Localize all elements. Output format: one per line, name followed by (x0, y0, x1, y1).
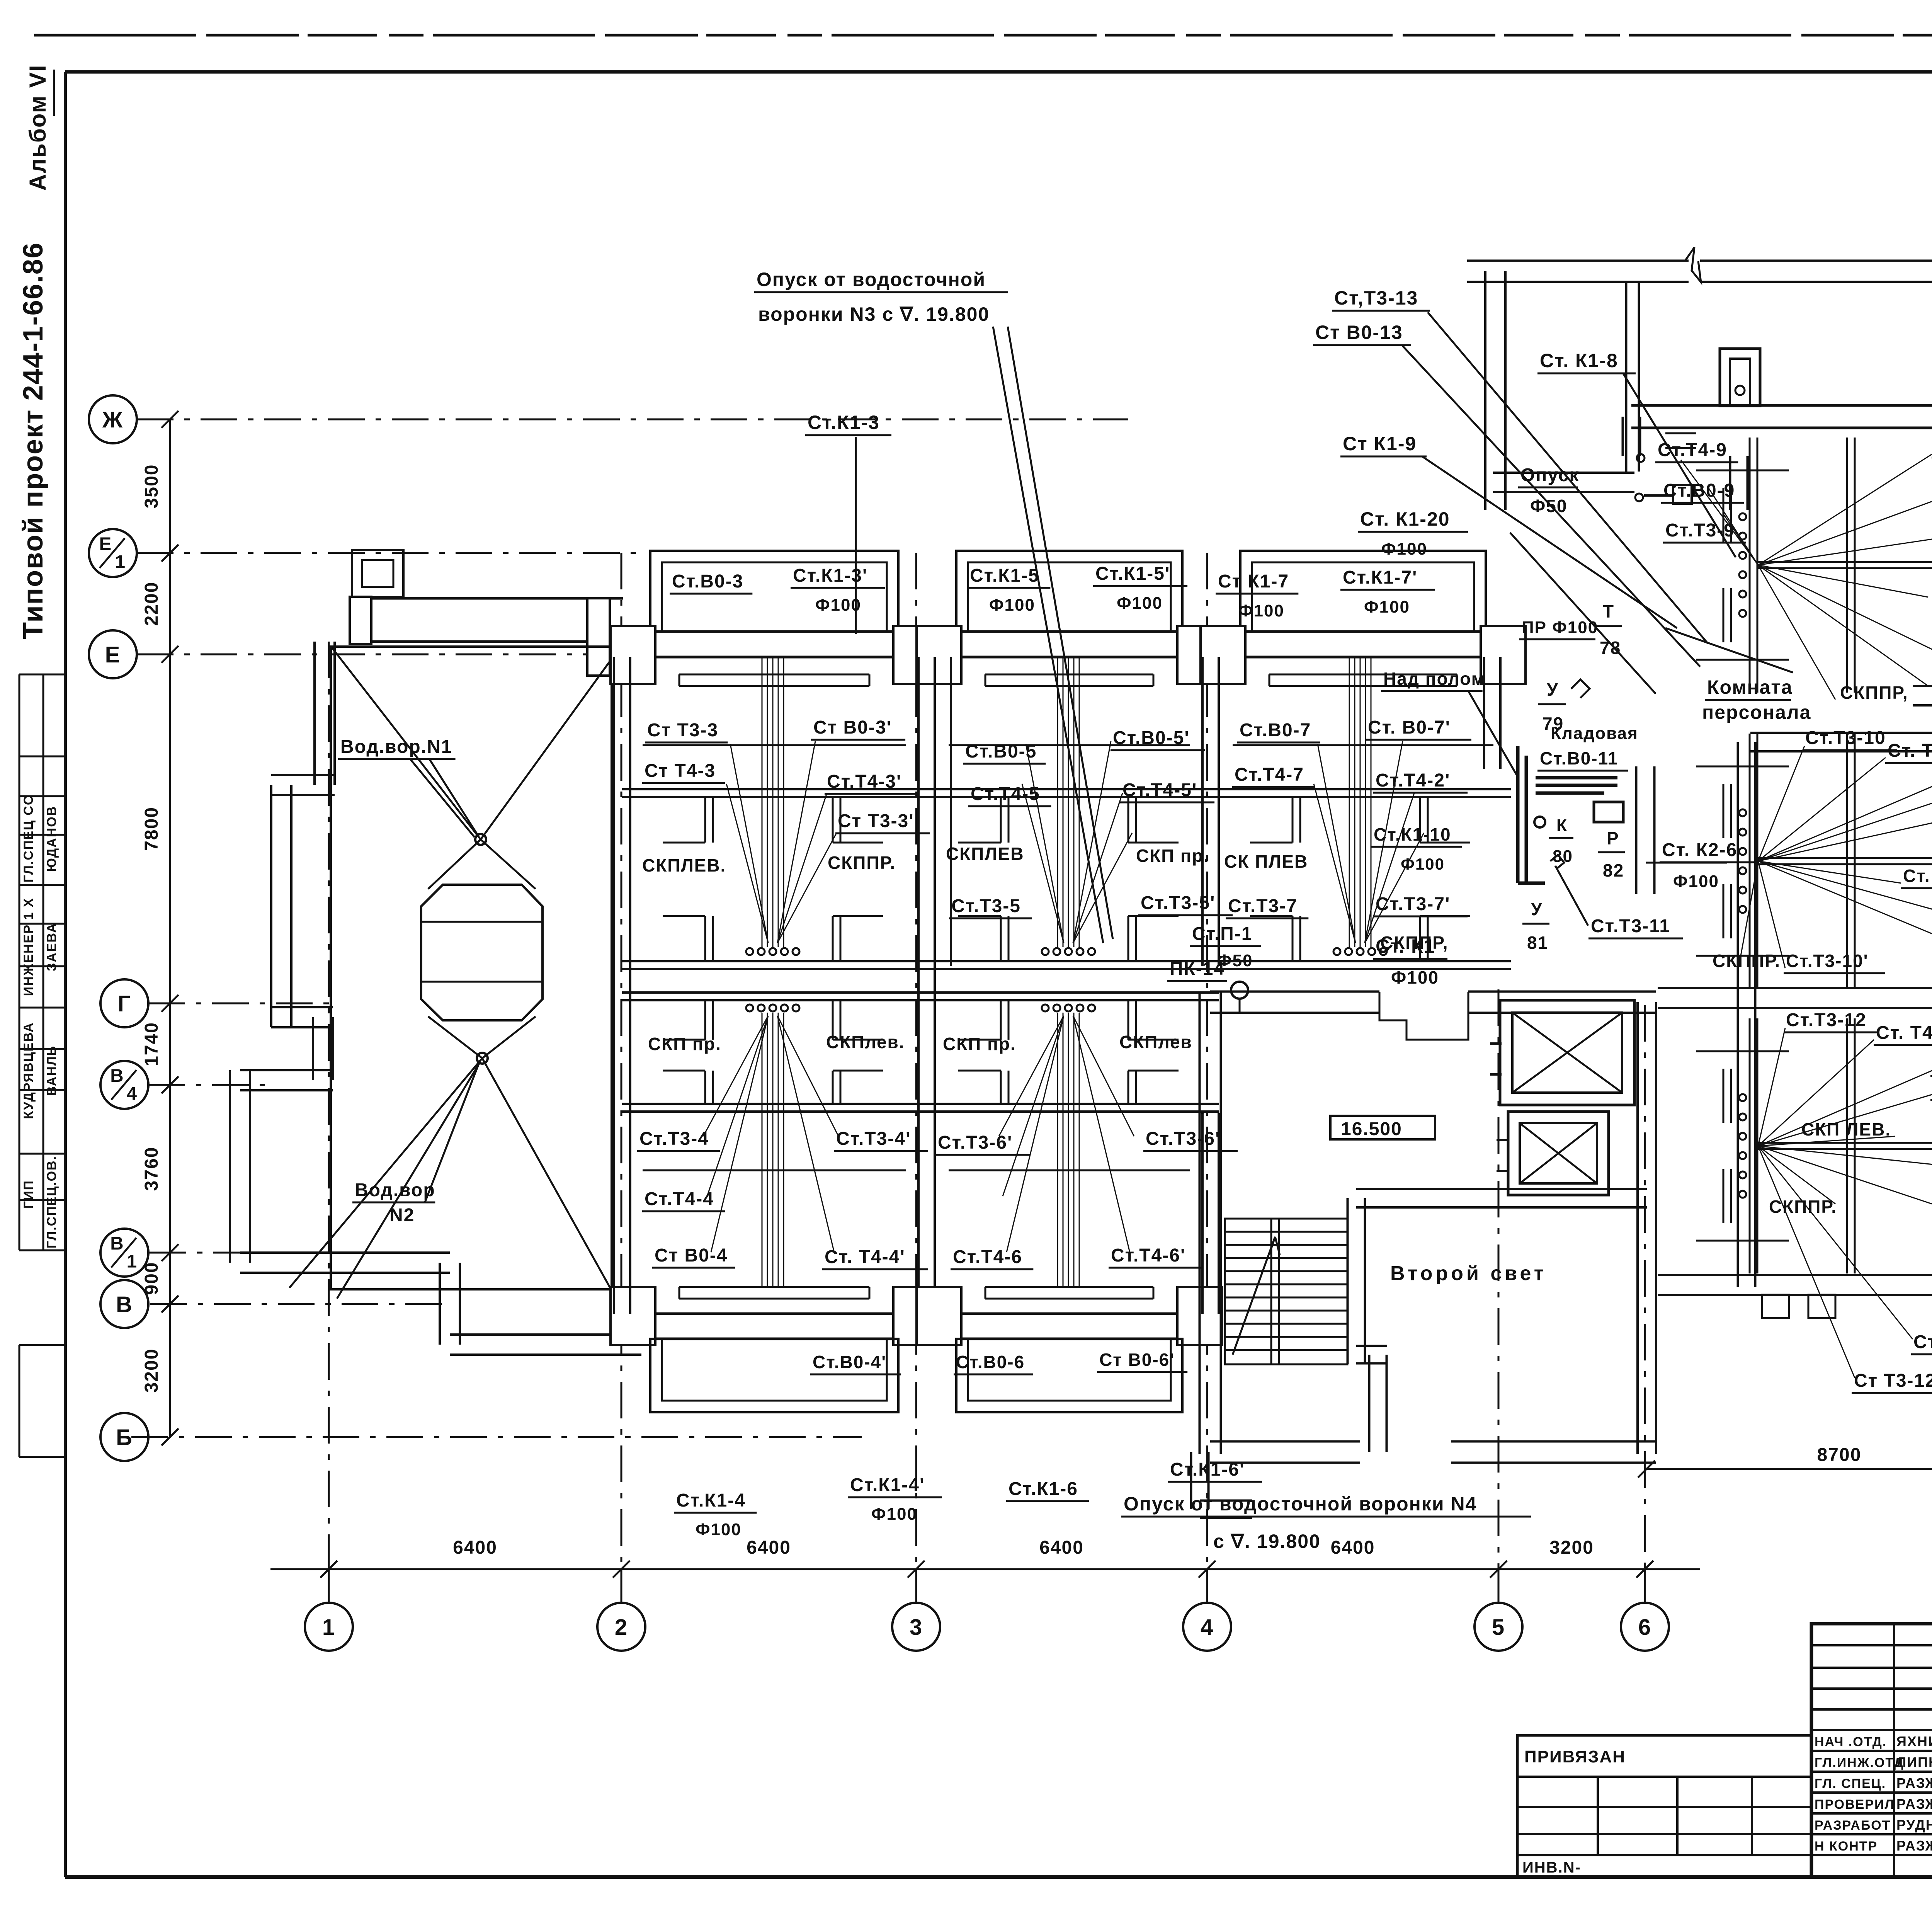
inter-module partition walls lower band (613, 1113, 615, 1314)
wall pilaster (611, 1287, 655, 1345)
wing room partitions (1749, 438, 1751, 693)
wall pilaster (1177, 626, 1222, 684)
svg-text:Ст.К1-4: Ст.К1-4 (676, 1490, 746, 1511)
pipe chase under wall (1269, 674, 1457, 676)
sanitary cabin upper rail (918, 788, 1219, 790)
svg-text:Ст.П-1: Ст.П-1 (1192, 924, 1252, 944)
svg-text:воронки N3 с ∇. 19.800: воронки N3 с ∇. 19.800 (758, 303, 990, 325)
room pipe line (643, 744, 906, 746)
svg-text:Н КОНТР: Н КОНТР (1815, 1839, 1878, 1854)
stub brackets (1730, 784, 1732, 838)
svg-text:Ф100: Ф100 (1401, 855, 1445, 873)
stair arrow (1233, 1237, 1275, 1355)
svg-text:Ст.Т4-7: Ст.Т4-7 (1235, 764, 1304, 785)
lower band exterior wall (612, 1313, 937, 1315)
svg-text:У: У (1531, 899, 1543, 919)
svg-text:ЛИПКИНД: ЛИПКИНД (1896, 1754, 1932, 1770)
svg-text:7800: 7800 (141, 807, 162, 851)
roof funnel upper X diagonals (332, 648, 481, 839)
lower loggia outline (650, 1339, 898, 1412)
module3 upper leader fan (1318, 744, 1355, 943)
axis Ж circle (89, 395, 137, 443)
elevation mark 16.500 (1330, 1116, 1435, 1139)
pipe chase above wall (679, 1286, 869, 1288)
cabin stub upper (1000, 1000, 1002, 1040)
stair flight (1225, 1219, 1347, 1364)
svg-text:Ст.Т3-12: Ст.Т3-12 (1786, 1010, 1867, 1030)
wing bottom wall (1735, 1294, 1932, 1296)
svg-text:Ст. К1-11': Ст. К1-11' (1903, 866, 1932, 886)
cabin stub upper (1419, 797, 1421, 843)
dim 8700 line right wing (1646, 1468, 1932, 1470)
svg-text:Ст В0-13: Ст В0-13 (1315, 322, 1403, 343)
svg-text:К: К (1556, 816, 1568, 835)
wall pilaster (893, 1287, 938, 1345)
title block outer border (1811, 1624, 1932, 1877)
stub brackets (1730, 488, 1732, 542)
svg-text:Ст В0-3': Ст В0-3' (813, 717, 892, 738)
svg-text:82: 82 (1603, 860, 1624, 880)
svg-text:ЯХНИС: ЯХНИС (1896, 1733, 1932, 1749)
wing room2 fan leaders (1758, 746, 1804, 861)
svg-text:Ст.Т4-3': Ст.Т4-3' (827, 771, 901, 792)
svg-text:Е: Е (105, 642, 121, 667)
wall pilaster (1481, 626, 1526, 684)
pipe chase under wall (985, 674, 1153, 676)
svg-text:3760: 3760 (141, 1147, 162, 1191)
sanitary cabin lower rail (622, 960, 923, 962)
machine room hexagon (421, 885, 543, 1020)
svg-text:Ст.Т4-4: Ст.Т4-4 (645, 1189, 714, 1209)
roof drain point 2 (477, 1053, 488, 1064)
sanitary cabin lower rail (1209, 960, 1511, 962)
elevator shaft 2 (1508, 1112, 1609, 1195)
lobby wall above light well (1356, 1206, 1647, 1209)
lower band exterior wall (918, 1313, 1221, 1315)
svg-text:1: 1 (127, 1251, 138, 1272)
wing room partitions (1749, 1018, 1751, 1273)
svg-text:СКП ЛЕВ.: СКП ЛЕВ. (1801, 1119, 1891, 1139)
west exterior wall stepped outline (313, 642, 316, 785)
svg-text:6400: 6400 (747, 1537, 791, 1558)
loggia outline (956, 551, 1182, 632)
svg-text:Типовой проект 244-1-66.86: Типовой проект 244-1-66.86 (18, 242, 49, 639)
upper hall top wall with break (1467, 281, 1689, 283)
pipe chase above wall (985, 1286, 1153, 1288)
axis 5 circle (1475, 1603, 1522, 1651)
wing room pipe run (1758, 561, 1932, 563)
svg-text:Р: Р (1607, 828, 1619, 848)
svg-text:Ст.К1-3: Ст.К1-3 (808, 412, 880, 433)
svg-text:3200: 3200 (141, 1348, 162, 1393)
svg-text:Кладовая: Кладовая (1551, 724, 1638, 743)
svg-text:Ст.К1-10: Ст.К1-10 (1374, 824, 1451, 844)
axis 6 circle (1621, 1603, 1669, 1651)
band exterior wall (612, 630, 937, 633)
wall pilaster (611, 626, 655, 684)
west top junction wall horizontal (350, 597, 623, 600)
svg-text:Ст.В0-9: Ст.В0-9 (1663, 480, 1735, 501)
svg-text:Ст.В0-7: Ст.В0-7 (1240, 720, 1311, 741)
wing corridor wall below room1 (1750, 750, 1932, 752)
svg-text:Ст. Т4-11: Ст. Т4-11 (1913, 1332, 1932, 1352)
wall pilaster (893, 626, 938, 684)
svg-text:Ст В0-4: Ст В0-4 (655, 1245, 728, 1266)
axis 4 circle (1183, 1603, 1231, 1651)
hall east wall upper (1729, 456, 1731, 510)
recess at stair top (1379, 992, 1468, 1040)
module2 upper leader fan (1026, 744, 1064, 943)
svg-text:ЗАЕВА: ЗАЕВА (44, 923, 59, 971)
svg-text:Ст Т3-3: Ст Т3-3 (647, 720, 718, 741)
svg-text:Ст.Т3-4: Ст.Т3-4 (639, 1129, 709, 1149)
bottom axis dash-dot verticals (328, 642, 330, 1602)
svg-text:Ст Т4-3: Ст Т4-3 (645, 761, 716, 781)
svg-text:ГЛ.ИНЖ.ОТД: ГЛ.ИНЖ.ОТД (1815, 1755, 1904, 1770)
svg-text:РАЗЖИВИНА: РАЗЖИВИНА (1896, 1775, 1932, 1791)
cabin stub lower (1128, 916, 1129, 961)
svg-text:ПРОВЕРИЛ: ПРОВЕРИЛ (1815, 1797, 1895, 1812)
sanitary cabin upper rail (622, 991, 923, 994)
svg-text:Б: Б (116, 1425, 133, 1450)
svg-text:В: В (110, 1066, 124, 1086)
svg-text:Ст. К2-6: Ст. К2-6 (1662, 840, 1737, 860)
svg-text:СКПлев: СКПлев (1119, 1032, 1192, 1052)
svg-text:Ст.Т3-5: Ст.Т3-5 (951, 896, 1021, 916)
hall inner wall vertical (1625, 282, 1628, 472)
svg-text:3200: 3200 (1549, 1537, 1594, 1558)
svg-text:Ст.В0-6: Ст.В0-6 (956, 1352, 1025, 1372)
riser dots (1739, 513, 1746, 520)
roof block outline (331, 647, 612, 1289)
svg-text:Ст.В0-5: Ст.В0-5 (965, 741, 1037, 762)
svg-text:78: 78 (1600, 638, 1621, 658)
cabin stub upper (1128, 1000, 1129, 1040)
top dashed trim line (34, 34, 1932, 37)
svg-text:Опуск от водосточной: Опуск от водосточной (757, 269, 986, 290)
svg-text:Ст.Т3-7': Ст.Т3-7' (1376, 894, 1450, 914)
svg-text:3: 3 (910, 1615, 923, 1640)
axis Е/1 dash-dot line (137, 552, 645, 554)
band exterior wall (918, 630, 1221, 633)
svg-text:Альбом VI: Альбом VI (25, 65, 51, 191)
svg-text:ИНЖЕНЕР 1 Х: ИНЖЕНЕР 1 Х (21, 898, 36, 996)
svg-text:4: 4 (1201, 1615, 1214, 1640)
sanitary cabin lower rail (918, 960, 1219, 962)
svg-text:Ст.Т4-6': Ст.Т4-6' (1111, 1245, 1185, 1266)
cabin stub upper (704, 1000, 706, 1040)
svg-text:КУДРЯВЦЕВА: КУДРЯВЦЕВА (21, 1022, 36, 1119)
svg-text:Опуск от водосточной воронк: Опуск от водосточной воронки N4 (1124, 1493, 1477, 1515)
room pipe line (949, 744, 1190, 746)
axis Ж dash-dot line (137, 419, 1128, 421)
title block small grid rows (1811, 1644, 1932, 1646)
svg-text:Ст.В0-4': Ст.В0-4' (813, 1352, 886, 1372)
cabin stub lower (704, 916, 706, 961)
svg-text:Ст.Т3-10': Ст.Т3-10' (1786, 951, 1869, 971)
svg-text:Над полом: Над полом (1383, 669, 1485, 689)
privyazan table (1517, 1735, 1811, 1877)
module1 upper leader fan (730, 744, 768, 943)
svg-text:1: 1 (322, 1615, 335, 1640)
svg-text:Ст.К1-7': Ст.К1-7' (1343, 567, 1417, 588)
svg-text:В: В (110, 1233, 124, 1254)
svg-text:Ст.В0-3: Ст.В0-3 (672, 571, 743, 592)
svg-text:ПР Ф100: ПР Ф100 (1522, 618, 1598, 637)
svg-text:СКПЛЕВ: СКПЛЕВ (946, 844, 1024, 864)
wing room pipe run (1758, 1142, 1932, 1144)
wing top-left connector walls (1622, 417, 1624, 456)
svg-text:СКПлев.: СКПлев. (826, 1032, 905, 1052)
svg-text:Ст. Т4-11: Ст. Т4-11 (1876, 1023, 1932, 1043)
west top wall end pilaster (350, 597, 371, 644)
axis Г dash-dot line (148, 1003, 333, 1004)
room pipe line (643, 1170, 906, 1171)
room pipe line (1233, 744, 1493, 746)
axis Б circle (100, 1413, 148, 1461)
svg-text:Ст.Т3-6': Ст.Т3-6' (938, 1132, 1012, 1153)
roof drain point 1 (475, 834, 486, 845)
cabin stub upper (832, 797, 834, 843)
svg-text:2200: 2200 (141, 582, 162, 626)
svg-text:Ф100: Ф100 (1364, 598, 1410, 616)
svg-text:СКППР,: СКППР, (1840, 683, 1908, 703)
svg-text:Ст.Т4-5: Ст.Т4-5 (971, 784, 1040, 804)
axis В/1 circle (100, 1229, 148, 1277)
svg-text:Ф100: Ф100 (871, 1505, 917, 1524)
svg-text:Ст.Т3-7: Ст.Т3-7 (1228, 896, 1298, 916)
svg-text:Ст.Т3-4': Ст.Т3-4' (836, 1129, 911, 1149)
loggia outline (650, 551, 898, 632)
svg-text:ЮДАНОВ: ЮДАНОВ (44, 806, 59, 872)
wing room1 bottom wall (1913, 704, 1932, 707)
svg-text:СКППР.: СКППР. (828, 853, 896, 873)
svg-text:В: В (116, 1292, 133, 1317)
svg-text:СКП пр.: СКП пр. (943, 1034, 1016, 1054)
svg-text:Ф100: Ф100 (1391, 967, 1439, 987)
cabin stub lower (832, 1071, 834, 1104)
svg-text:Ст.Т4-5': Ст.Т4-5' (1122, 780, 1197, 800)
axis Е/1 circle (89, 529, 137, 577)
svg-text:Ст.Т4-9: Ст.Т4-9 (1658, 440, 1727, 460)
roof funnel lower X diagonals (428, 1016, 482, 1058)
wall pilaster (1177, 1287, 1222, 1345)
left signature table (19, 674, 20, 1250)
svg-text:Ст.К1-5': Ст.К1-5' (1095, 564, 1170, 584)
svg-text:6: 6 (1638, 1615, 1651, 1640)
svg-text:Ст.К1-6: Ст.К1-6 (1009, 1479, 1078, 1499)
pipe chase under wall (679, 674, 869, 676)
riser dots (1739, 809, 1746, 816)
hall bottom wall (1493, 491, 1634, 493)
svg-text:РУДНИЦКАЯ: РУДНИЦКАЯ (1896, 1817, 1932, 1833)
stub brackets (1730, 1069, 1732, 1123)
svg-text:РАЗРАБОТ: РАЗРАБОТ (1815, 1818, 1891, 1833)
riser pipe cluster (1057, 1013, 1058, 1287)
svg-text:Ф100: Ф100 (1117, 594, 1163, 613)
corridor west wall (613, 657, 615, 1314)
svg-text:ГЛ.СПЕЦ СС: ГЛ.СПЕЦ СС (21, 795, 36, 883)
svg-text:ВАНЛЬ: ВАНЛЬ (44, 1045, 59, 1096)
svg-text:ПРИВЯЗАН: ПРИВЯЗАН (1524, 1747, 1626, 1766)
label К/80 with fixture (1534, 817, 1545, 827)
svg-text:с ∇. 19.800: с ∇. 19.800 (1213, 1531, 1321, 1552)
wing room partitions (1749, 734, 1751, 989)
svg-text:5: 5 (1492, 1615, 1505, 1640)
axis 3 circle (892, 1603, 940, 1651)
riser pipe cluster (762, 1013, 763, 1287)
loggia outline (1240, 551, 1486, 632)
elevator shaft 1 (1500, 1000, 1634, 1105)
cabin stub lower (1000, 1071, 1002, 1104)
axis 2 circle (597, 1603, 645, 1651)
svg-text:Ст.Т3-9: Ст.Т3-9 (1665, 520, 1735, 541)
title block small grid verticals (1893, 1624, 1895, 1877)
axis В/4 dash-dot line (148, 1084, 272, 1086)
svg-text:ГЛ. СПЕЦ.: ГЛ. СПЕЦ. (1815, 1776, 1886, 1791)
svg-text:Ст.К1-5: Ст.К1-5 (970, 565, 1039, 586)
axis В/1 dash-dot line (150, 1252, 402, 1254)
cabin stub upper (1000, 797, 1002, 843)
svg-text:Ст. К1-8: Ст. К1-8 (1540, 350, 1618, 371)
svg-text:Вод.вор.N1: Вод.вор.N1 (340, 737, 452, 757)
svg-text:N2: N2 (389, 1205, 415, 1226)
svg-text:Ст К1-7: Ст К1-7 (1218, 571, 1289, 592)
room pipe line (949, 1170, 1190, 1171)
wing left wall (1737, 742, 1739, 1287)
svg-text:ИНВ.N-: ИНВ.N- (1522, 1859, 1581, 1876)
axis Е dash-dot line (137, 654, 614, 655)
svg-text:СКПЛЕВ.: СКПЛЕВ. (642, 855, 726, 875)
cabin stub upper (832, 1000, 834, 1040)
svg-text:Комната: Комната (1707, 676, 1793, 698)
svg-text:Ф50: Ф50 (1530, 496, 1567, 516)
svg-text:Ст. К1: Ст. К1 (1376, 935, 1435, 957)
wing room1 fan leaders (1681, 460, 1758, 565)
svg-text:900: 900 (141, 1262, 162, 1295)
svg-text:СКППР.: СКППР. (1713, 951, 1781, 971)
wing appendix box СтК1-8 (1720, 349, 1760, 406)
svg-text:Ф100: Ф100 (989, 596, 1035, 615)
cabin stub upper (1292, 797, 1294, 843)
svg-text:СК ПЛЕВ: СК ПЛЕВ (1224, 851, 1308, 872)
wing room pipe run (1758, 857, 1932, 859)
svg-text:Ст. К1-20: Ст. К1-20 (1360, 508, 1450, 530)
svg-text:Ст К1-9: Ст К1-9 (1343, 433, 1417, 455)
riser dots (1739, 1094, 1746, 1101)
wall between stair and light well (1347, 1198, 1349, 1364)
axis Б dash-dot line (131, 1436, 862, 1438)
module1 lower leader fan (703, 1016, 768, 1136)
svg-text:Ст.В0-5': Ст.В0-5' (1113, 728, 1190, 748)
axis В dash-dot line (150, 1303, 450, 1305)
svg-text:Ф100: Ф100 (815, 596, 861, 615)
hall drop fixtures (1637, 454, 1645, 462)
bottom dimension line (270, 1568, 1700, 1570)
lower loggia outline (956, 1339, 1182, 1412)
svg-text:Ст,Т3-13: Ст,Т3-13 (1334, 287, 1418, 309)
svg-text:РАЗЖИВИНА: РАЗЖИВИНА (1896, 1838, 1932, 1854)
hall west wall vertical (1484, 271, 1486, 510)
svg-text:6400: 6400 (1331, 1537, 1375, 1558)
svg-text:1740: 1740 (141, 1022, 162, 1066)
svg-text:16.500: 16.500 (1341, 1119, 1402, 1139)
hall east wall (1635, 766, 1638, 894)
svg-text:8700: 8700 (1817, 1445, 1862, 1465)
wall pilaster (917, 1287, 961, 1345)
svg-text:1: 1 (115, 552, 126, 572)
axis В circle (100, 1280, 148, 1328)
cabin stub upper (1128, 797, 1129, 843)
svg-text:Ф100: Ф100 (696, 1520, 742, 1539)
west small balcony box above wall (352, 550, 403, 597)
svg-text:НАЧ .ОТД.: НАЧ .ОТД. (1815, 1735, 1887, 1749)
inter-module partition walls upper band (613, 657, 615, 966)
cabin stub lower (1292, 916, 1294, 961)
axis В/4 circle (100, 1061, 148, 1109)
svg-text:Ст В0-6': Ст В0-6' (1099, 1350, 1175, 1370)
svg-text:6400: 6400 (453, 1537, 497, 1558)
svg-text:Ст.В0-11: Ст.В0-11 (1540, 748, 1618, 768)
drawing frame (65, 70, 1932, 74)
svg-text:Ст.Т4-2': Ст.Т4-2' (1376, 770, 1450, 791)
stair block south annexe walls (1190, 1452, 1192, 1509)
axis Г circle (100, 979, 148, 1027)
svg-text:Т: Т (1603, 601, 1614, 621)
svg-text:СКП пр.: СКП пр. (1136, 846, 1209, 866)
svg-text:Вод.вор: Вод.вор (355, 1180, 435, 1200)
wall pilaster (917, 626, 961, 684)
svg-text:Ст. Т4-10: Ст. Т4-10 (1888, 741, 1932, 761)
svg-text:Ст.К1-3': Ст.К1-3' (793, 565, 867, 586)
svg-text:Ж: Ж (102, 407, 123, 432)
svg-text:РАЗЖИВИНА: РАЗЖИВИНА (1896, 1796, 1932, 1812)
svg-text:Ф100: Ф100 (1673, 872, 1719, 891)
svg-text:Второй свет: Второй свет (1390, 1262, 1547, 1285)
leader from drain text N3 to module 2 (1008, 327, 1113, 939)
wing room2 bottom wall (1658, 1007, 1932, 1009)
svg-text:2: 2 (615, 1615, 628, 1640)
svg-text:Ф50: Ф50 (1217, 951, 1253, 970)
wall pilaster (1201, 626, 1245, 684)
svg-text:3500: 3500 (141, 464, 162, 509)
svg-text:СКП пр.: СКП пр. (648, 1034, 721, 1054)
wing top wall (1631, 427, 1932, 429)
cabin stub upper (704, 797, 706, 843)
sanitary cabin lower rail (622, 1103, 923, 1105)
cabin stub lower (1000, 916, 1002, 961)
svg-text:Ст.К1-4': Ст.К1-4' (850, 1475, 925, 1495)
svg-text:Ст Т3-12: Ст Т3-12 (1854, 1371, 1932, 1391)
svg-text:4: 4 (127, 1083, 138, 1104)
wing room3 fan leaders (1758, 1028, 1785, 1146)
sanitary cabin lower rail (918, 1103, 1219, 1105)
svg-text:Ст.Т3-11: Ст.Т3-11 (1591, 916, 1670, 936)
svg-text:6400: 6400 (1039, 1537, 1084, 1558)
axis 1 circle (305, 1603, 353, 1651)
cabin stub lower (704, 1071, 706, 1104)
svg-text:У: У (1547, 679, 1559, 700)
svg-text:персонала: персонала (1702, 701, 1811, 723)
cabin stub lower (832, 916, 834, 961)
riser pipe cluster (1349, 657, 1350, 947)
svg-text:Г: Г (118, 991, 131, 1016)
svg-text:Ф100: Ф100 (1238, 601, 1284, 620)
svg-text:ГИП: ГИП (21, 1180, 36, 1209)
svg-text:Ст.Т3-6': Ст.Т3-6' (1146, 1129, 1220, 1149)
svg-text:Ф100: Ф100 (1381, 540, 1427, 558)
riser pipe cluster (762, 657, 763, 947)
